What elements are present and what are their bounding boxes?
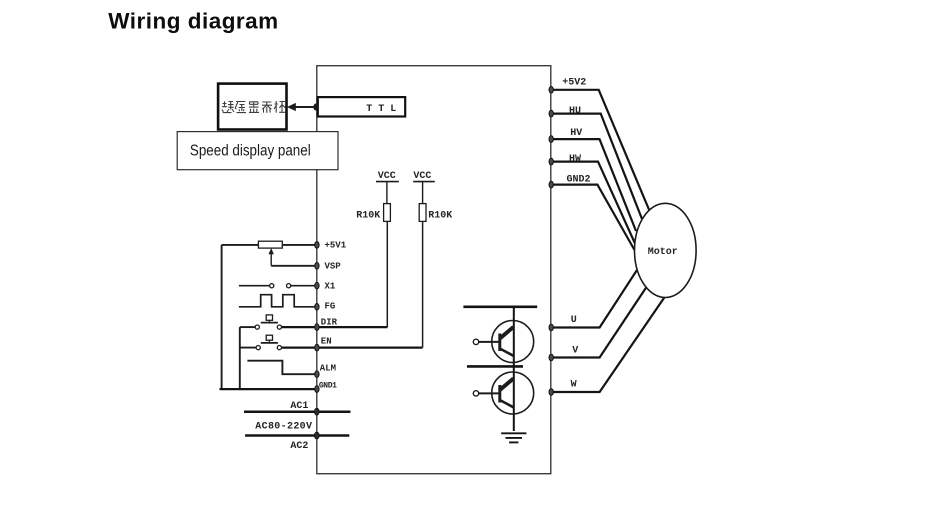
wire +5V2 to motor (551, 90, 650, 212)
wire V to motor (551, 287, 647, 358)
svg-text:+5V2: +5V2 (562, 78, 586, 89)
motor M1 (635, 203, 697, 297)
switch S1 DIR pushbutton (240, 315, 282, 329)
switch S2 EN pushbutton (240, 335, 282, 350)
pin V (549, 354, 553, 361)
pin +5V2 (549, 87, 553, 94)
svg-text:R10K: R10K (428, 211, 452, 222)
net VCC 2 (413, 171, 435, 204)
wire GND2 to motor (551, 185, 635, 250)
wire R1 to DIR (386, 221, 388, 327)
svg-text:+5V1: +5V1 (325, 241, 347, 251)
svg-text:FG: FG (325, 302, 336, 312)
pin ALM (315, 371, 319, 378)
wire left bus vertical (221, 245, 223, 389)
top bar (463, 305, 537, 308)
svg-text:GND2: GND2 (567, 175, 591, 186)
wire W to motor (551, 297, 665, 393)
svg-text:X1: X1 (325, 282, 336, 292)
ground (501, 433, 526, 442)
pin EN (315, 344, 319, 351)
svg-text:AC2: AC2 (290, 441, 308, 452)
svg-text:V: V (572, 345, 578, 356)
potentiometer RP1 (258, 241, 282, 248)
wire ALM step (247, 361, 316, 375)
wire AC2 (245, 434, 349, 437)
wire AC1 (244, 410, 351, 413)
junction AC2 (314, 432, 319, 439)
pin FG (315, 304, 319, 311)
wire +5V1 row (222, 244, 317, 246)
wire GND1 row (220, 388, 317, 390)
svg-text:HW: HW (569, 154, 581, 165)
pin HU (549, 110, 553, 117)
junction TTL (313, 104, 318, 111)
svg-text:Speed display panel: Speed display panel (190, 143, 311, 160)
pin HV (549, 136, 553, 143)
arrow TTL to display board (287, 103, 316, 111)
pin GND1 (315, 386, 319, 393)
wire X1 row with contacts (239, 284, 317, 288)
display board box (218, 84, 286, 130)
svg-text:Motor: Motor (648, 247, 678, 258)
wire HW to motor (551, 162, 635, 243)
transistor Q1 (473, 321, 533, 363)
pin U (549, 324, 553, 331)
wire VSP row (271, 265, 317, 267)
junction AC1 (314, 408, 319, 415)
collector rail (513, 307, 515, 431)
wire DIR row (282, 326, 388, 328)
resistor R10K 2 (419, 204, 452, 222)
svg-text:EN: EN (321, 337, 332, 347)
middle bar (467, 365, 523, 368)
pin VSP (315, 263, 319, 270)
pin W (549, 389, 553, 396)
wire EN row (282, 346, 423, 348)
svg-text:U: U (571, 315, 577, 326)
controller box U1 (317, 66, 551, 474)
potentiometer wiper arrow (269, 248, 274, 266)
wire FG square wave (239, 295, 317, 307)
wire R2 to EN (422, 221, 424, 347)
svg-text:AC80-220V: AC80-220V (255, 422, 312, 433)
net VCC 1 (376, 171, 399, 204)
svg-text:VCC: VCC (378, 171, 396, 182)
TTL box (318, 97, 405, 116)
svg-text:T T L: T T L (366, 104, 396, 115)
pin GND2 (549, 181, 553, 188)
svg-text:VSP: VSP (325, 262, 342, 272)
svg-text:HV: HV (570, 128, 582, 139)
svg-text:GND1: GND1 (319, 382, 337, 391)
pin X1 (315, 282, 319, 289)
pin +5V1 (315, 242, 319, 249)
pin HW (549, 158, 553, 165)
display board CJK label 速度显示板 (222, 101, 285, 113)
transistor Q2 (473, 372, 533, 414)
svg-text:ALM: ALM (320, 364, 336, 374)
svg-text:HU: HU (569, 106, 581, 117)
speed display panel label box (177, 132, 338, 170)
svg-text:AC1: AC1 (290, 401, 308, 412)
svg-text:W: W (571, 379, 577, 390)
svg-text:VCC: VCC (413, 171, 431, 182)
svg-text:Wiring diagram: Wiring diagram (108, 9, 278, 34)
resistor R10K 1 (356, 204, 390, 222)
wire HV to motor (551, 139, 636, 231)
wire left bus 2 vertical (239, 327, 241, 389)
svg-text:R10K: R10K (356, 211, 380, 222)
svg-text:DIR: DIR (321, 318, 338, 328)
wire HU to motor (551, 114, 642, 219)
wire U to motor (551, 270, 637, 328)
pin DIR (315, 324, 319, 331)
